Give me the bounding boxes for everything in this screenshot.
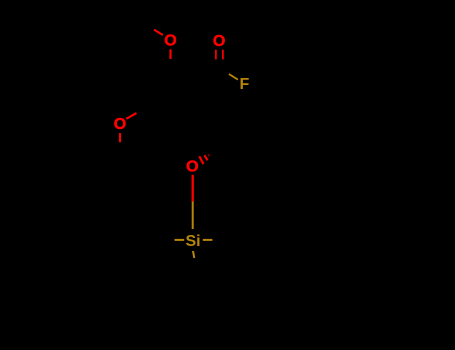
svg-text:Si: Si [185,233,200,250]
svg-text:O: O [114,116,126,133]
wire O4–Si bond (red half) [192,175,194,202]
wire Si–CH3 right bond (gold half) [203,239,213,241]
wire Si–C(t-Bu) bond (gold half) [193,251,194,258]
svg-text:O: O [186,159,198,176]
wire O3–CH3 bond (red half) [119,133,121,142]
svg-text:O: O [164,33,176,50]
wire O3–ring bond (red half) [126,113,136,119]
wire hashed stereo bond mark 2 (red) [205,155,208,160]
wire C–F bond (gold half) [229,74,238,80]
wire C=O double bond line 2 (red half) [222,50,224,60]
wire O1–CH3 bond (red half) [154,30,163,35]
wire Si–CH3 left bond (gold half) [175,239,185,241]
wire O4–Si bond (gold half) [192,202,194,230]
wire O1–ring bond (red half) [169,49,171,59]
svg-text:O: O [213,33,225,50]
wire hashed stereo bond mark 1 (red) [199,156,203,164]
svg-text:F: F [240,76,250,93]
wire hashed stereo bond mark 3 (dark red) [208,154,209,156]
wire C=O double bond line 1 (red half) [215,50,217,60]
